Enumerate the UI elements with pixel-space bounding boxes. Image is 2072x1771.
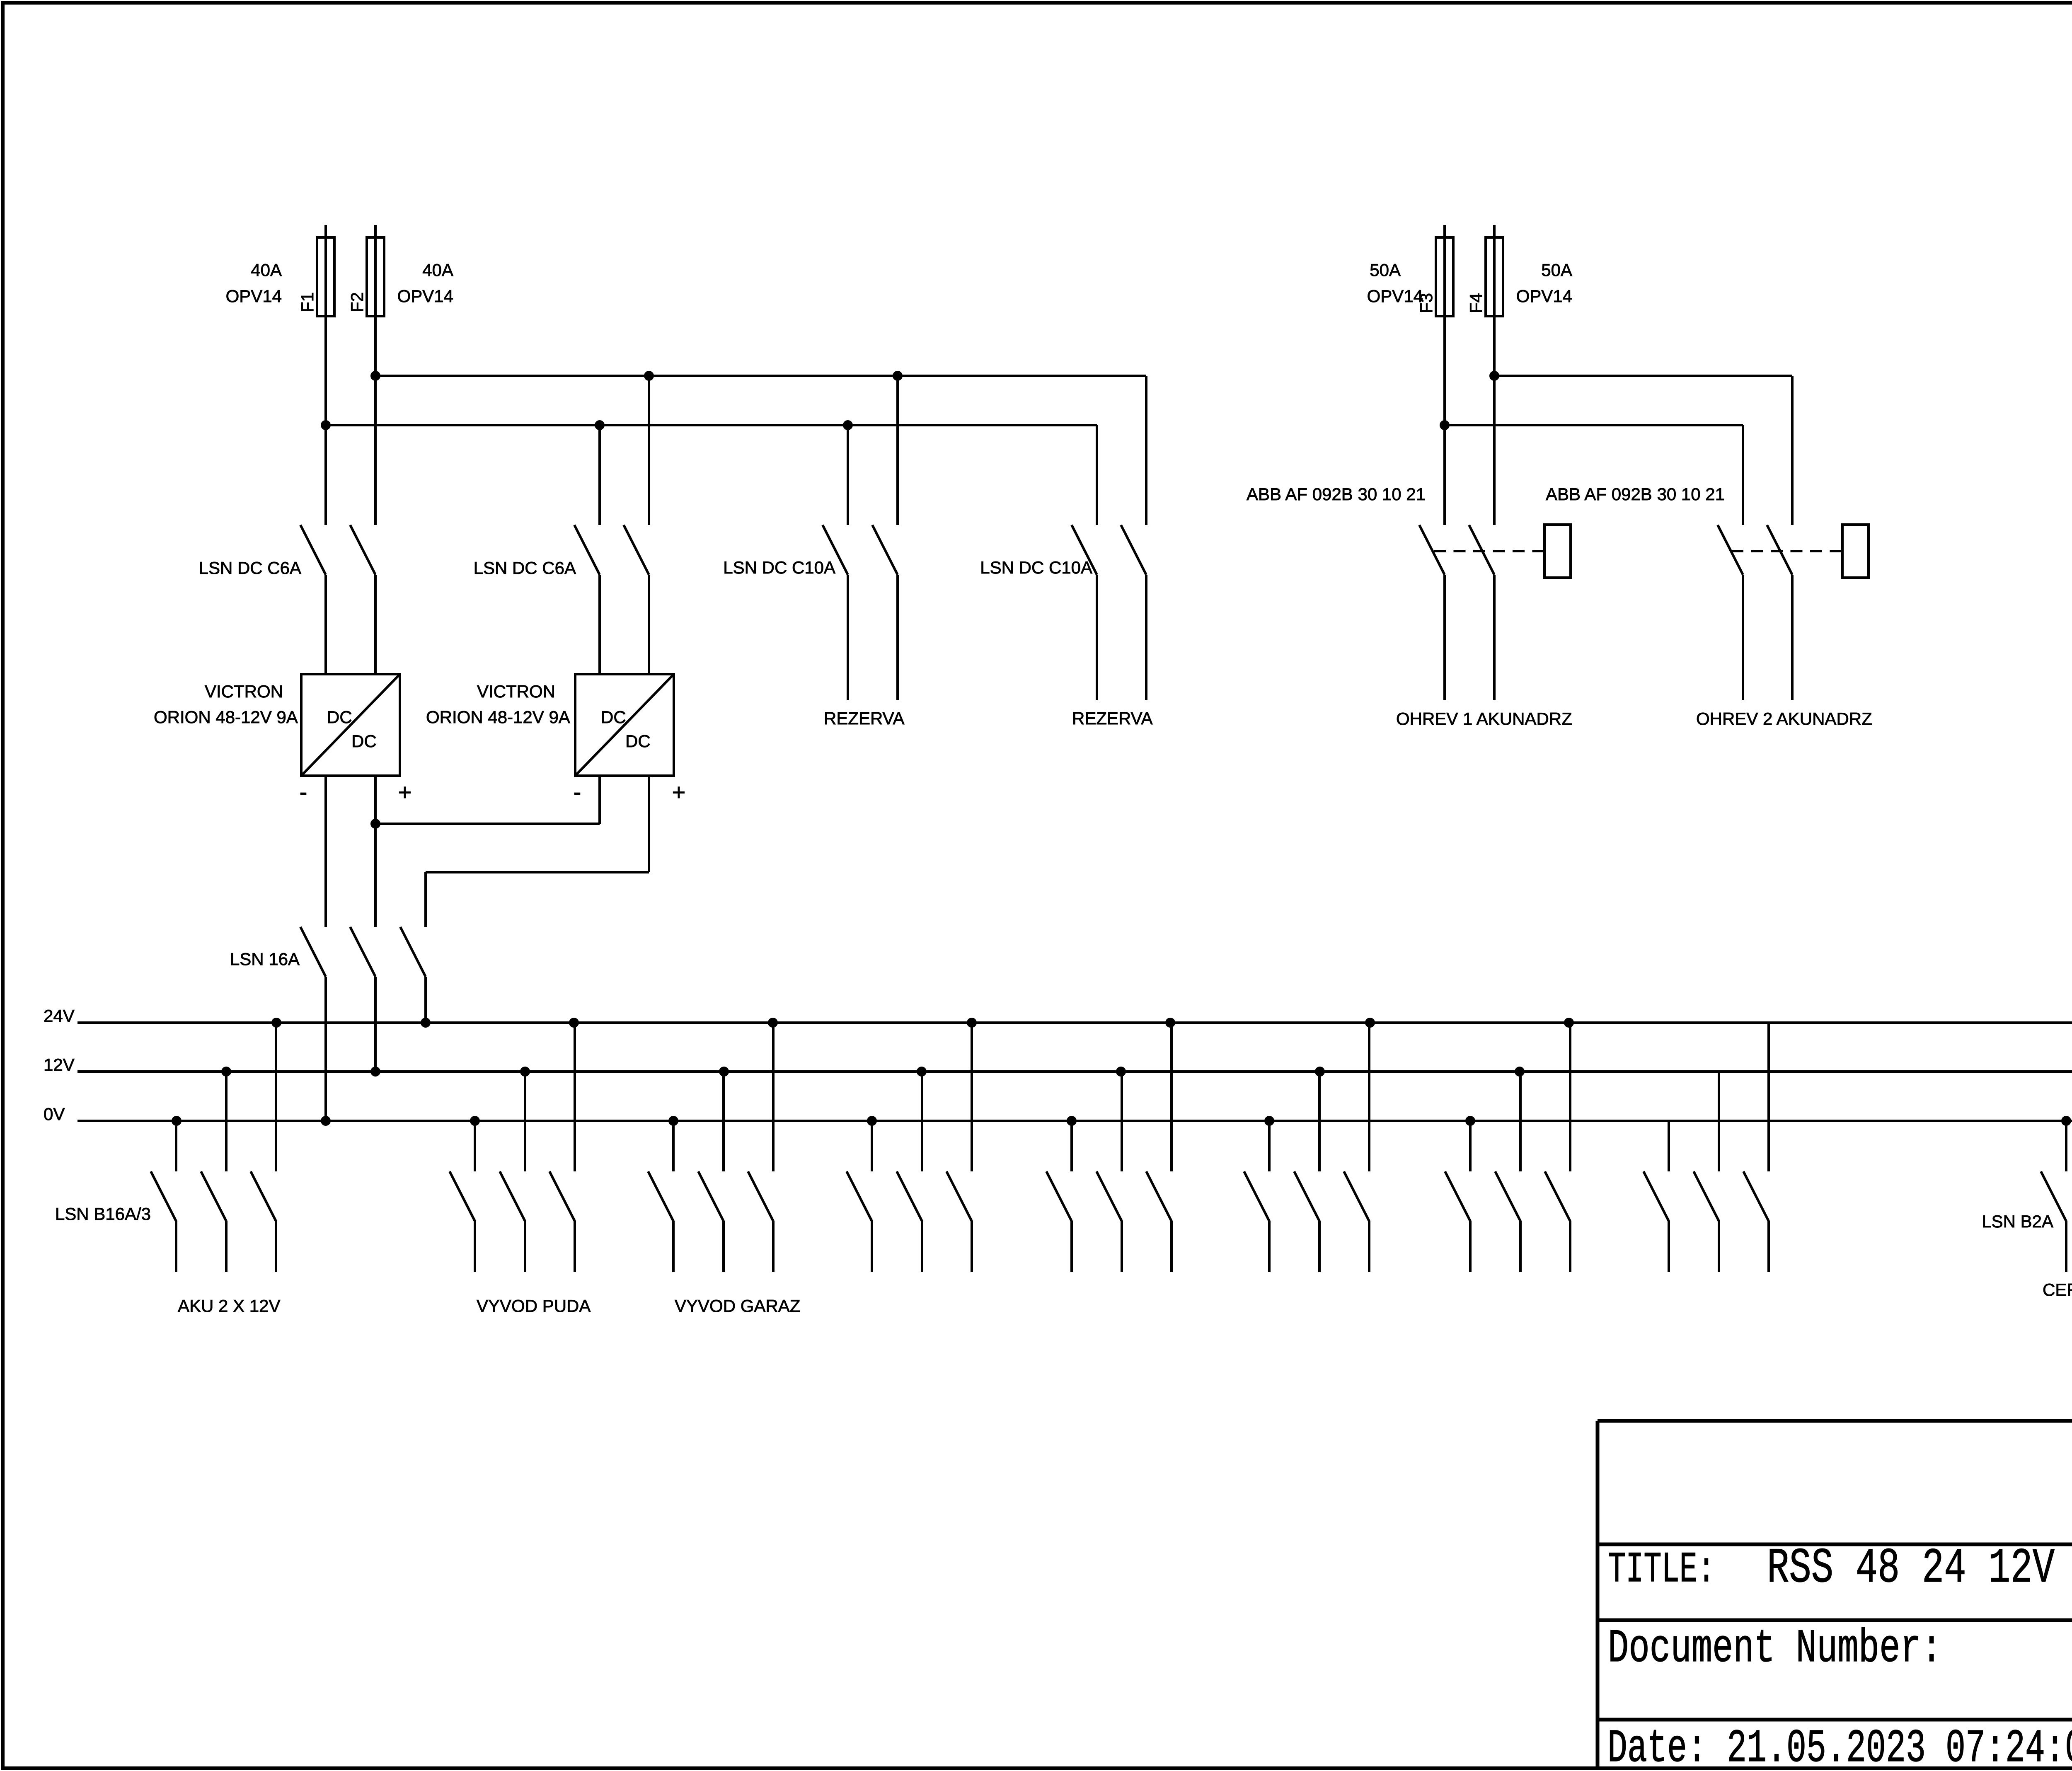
svg-text:F4: F4 — [1466, 293, 1486, 313]
svg-text:-: - — [300, 779, 307, 805]
svg-text:24V: 24V — [44, 1006, 75, 1026]
svg-text:LSN B2A: LSN B2A — [1982, 1212, 2053, 1231]
svg-text:REZERVA: REZERVA — [1072, 709, 1153, 728]
svg-text:LSN DC C6A: LSN DC C6A — [474, 558, 576, 578]
svg-text:50A: 50A — [1541, 260, 1572, 280]
svg-text:OPV14: OPV14 — [397, 286, 453, 306]
svg-text:40A: 40A — [251, 260, 282, 280]
svg-text:OPV14: OPV14 — [226, 286, 282, 306]
svg-text:CERBO 12V: CERBO 12V — [2043, 1280, 2072, 1299]
svg-text:VYVOD GARAZ: VYVOD GARAZ — [675, 1296, 800, 1316]
svg-text:LSN DC C10A: LSN DC C10A — [980, 558, 1092, 577]
svg-text:-: - — [574, 779, 581, 805]
svg-text:VICTRON: VICTRON — [477, 682, 555, 701]
svg-text:50A: 50A — [1370, 260, 1401, 280]
svg-text:ORION 48-12V 9A: ORION 48-12V 9A — [426, 707, 570, 727]
svg-text:ABB AF 092B 30 10 21: ABB AF 092B 30 10 21 — [1247, 484, 1426, 504]
svg-text:TITLE:: TITLE: — [1608, 1545, 1715, 1594]
svg-text:DC: DC — [351, 731, 377, 751]
svg-text:REZERVA: REZERVA — [824, 709, 905, 728]
svg-text:12V: 12V — [44, 1055, 75, 1074]
svg-text:ORION 48-12V 9A: ORION 48-12V 9A — [154, 707, 298, 727]
svg-text:+: + — [398, 779, 412, 805]
svg-text:DC: DC — [327, 707, 352, 727]
svg-text:DC: DC — [601, 707, 626, 727]
svg-text:LSN B16A/3: LSN B16A/3 — [55, 1204, 151, 1224]
svg-text:Date: 21.05.2023 07:24:02: Date: 21.05.2023 07:24:02 — [1607, 1723, 2072, 1771]
svg-text:VYVOD PUDA: VYVOD PUDA — [477, 1296, 591, 1316]
svg-text:DC: DC — [625, 731, 651, 751]
svg-text:LSN DC C6A: LSN DC C6A — [199, 558, 301, 578]
svg-text:LSN 16A: LSN 16A — [230, 949, 300, 969]
svg-text:+: + — [672, 779, 686, 805]
svg-text:OHREV 2 AKUNADRZ: OHREV 2 AKUNADRZ — [1696, 709, 1872, 728]
svg-text:VICTRON: VICTRON — [205, 682, 283, 701]
svg-text:0V: 0V — [44, 1104, 65, 1124]
svg-text:RSS 48 24 12V: RSS 48 24 12V — [1767, 1541, 2055, 1597]
svg-text:F2: F2 — [347, 292, 367, 312]
svg-text:OPV14: OPV14 — [1516, 286, 1572, 306]
svg-text:ABB AF 092B 30 10 21: ABB AF 092B 30 10 21 — [1546, 484, 1725, 504]
svg-text:OHREV 1 AKUNADRZ: OHREV 1 AKUNADRZ — [1396, 709, 1572, 728]
svg-text:F1: F1 — [298, 292, 317, 312]
svg-text:OPV14: OPV14 — [1367, 286, 1423, 306]
svg-text:40A: 40A — [422, 260, 453, 280]
svg-text:LSN DC C10A: LSN DC C10A — [723, 558, 835, 577]
svg-text:AKU 2 X 12V: AKU 2 X 12V — [178, 1296, 280, 1316]
svg-text:Document Number:: Document Number: — [1608, 1622, 1942, 1675]
